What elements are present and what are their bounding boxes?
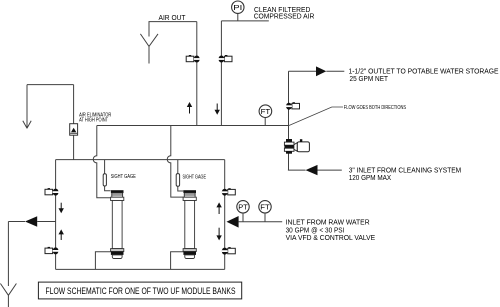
svg-text:25 GPM NET: 25 GPM NET — [350, 74, 389, 83]
svg-text:FLOW SCHEMATIC FOR ONE OF TWO: FLOW SCHEMATIC FOR ONE OF TWO UF MODULE … — [46, 286, 236, 296]
svg-text:FLOW GOES BOTH DIRECTIONS: FLOW GOES BOTH DIRECTIONS — [344, 105, 406, 111]
svg-text:AT HIGH POINT: AT HIGH POINT — [79, 117, 108, 123]
svg-text:AIR OUT: AIR OUT — [159, 13, 186, 22]
svg-text:SIGHT GAGE: SIGHT GAGE — [111, 174, 137, 180]
svg-text:FT: FT — [260, 204, 270, 211]
svg-text:VIA VFD & CONTROL VALVE: VIA VFD & CONTROL VALVE — [286, 233, 376, 242]
svg-text:120 GPM MAX: 120 GPM MAX — [349, 173, 392, 182]
svg-text:PT: PT — [238, 204, 248, 211]
svg-text:FT: FT — [261, 109, 271, 116]
svg-text:PI: PI — [233, 5, 242, 12]
svg-text:SIGHT GAGE: SIGHT GAGE — [183, 175, 207, 181]
svg-text:COMPRESSED AIR: COMPRESSED AIR — [254, 11, 315, 20]
